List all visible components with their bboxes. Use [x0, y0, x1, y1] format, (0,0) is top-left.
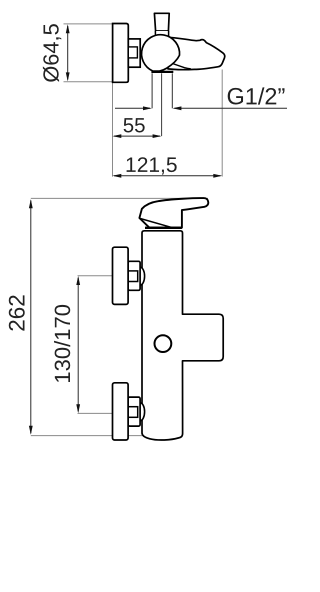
outlet pipe edge left	[151, 73, 153, 108]
handle knob	[154, 13, 169, 31]
G1/2 leader line left segment	[115, 107, 150, 109]
lever base front edge	[140, 218, 174, 228]
svg-text:130/170: 130/170	[50, 304, 75, 384]
extension line spout tip	[221, 70, 223, 177]
outlet cap thick line	[151, 71, 173, 73]
handle neck	[155, 31, 168, 37]
upper union nut	[128, 261, 140, 290]
svg-text:55: 55	[123, 114, 146, 137]
dimension line diameter 64,5	[67, 26, 69, 80]
dimension line 55	[114, 135, 160, 137]
union nut middle band	[128, 47, 137, 58]
extension line flange top	[64, 23, 113, 25]
G1/2 leader line right segment	[174, 107, 287, 109]
upper union escutcheon	[113, 247, 129, 304]
svg-text:G1/2”: G1/2”	[226, 83, 285, 109]
spout under-contour	[173, 64, 191, 69]
diverter button circle	[155, 335, 172, 352]
svg-text:Ø64,5: Ø64,5	[38, 23, 63, 82]
extension line lower union center	[78, 412, 113, 414]
outlet pipe edge right	[171, 73, 173, 108]
svg-text:262: 262	[4, 294, 29, 332]
extension line upper union center	[78, 275, 113, 277]
lower union escutcheon	[113, 383, 129, 440]
upper union pipe arc	[140, 267, 145, 285]
dimension line 121,5	[114, 175, 221, 177]
extension line wall plane (below flange)	[112, 83, 114, 177]
wall flange	[113, 24, 129, 83]
lever handle (front view)	[139, 198, 208, 228]
upper union nut band	[128, 271, 138, 282]
dimension line 130/170	[77, 278, 79, 412]
dimension line 262	[30, 200, 32, 433]
body with spout arm (front view)	[142, 231, 223, 440]
lower union pipe arc	[140, 403, 145, 421]
extension line flange bottom	[64, 81, 113, 83]
extension line bottom (body bottom)	[31, 435, 142, 437]
svg-text:121,5: 121,5	[125, 154, 178, 177]
extension line top (lever top)	[31, 197, 208, 199]
lower union nut	[128, 397, 140, 426]
lower union nut band	[128, 407, 138, 418]
lever base bottom thick edge	[145, 227, 182, 229]
outlet centerline	[161, 73, 163, 136]
valve body circle	[142, 35, 180, 71]
spout	[166, 37, 225, 69]
union nut (side view)	[128, 39, 140, 67]
